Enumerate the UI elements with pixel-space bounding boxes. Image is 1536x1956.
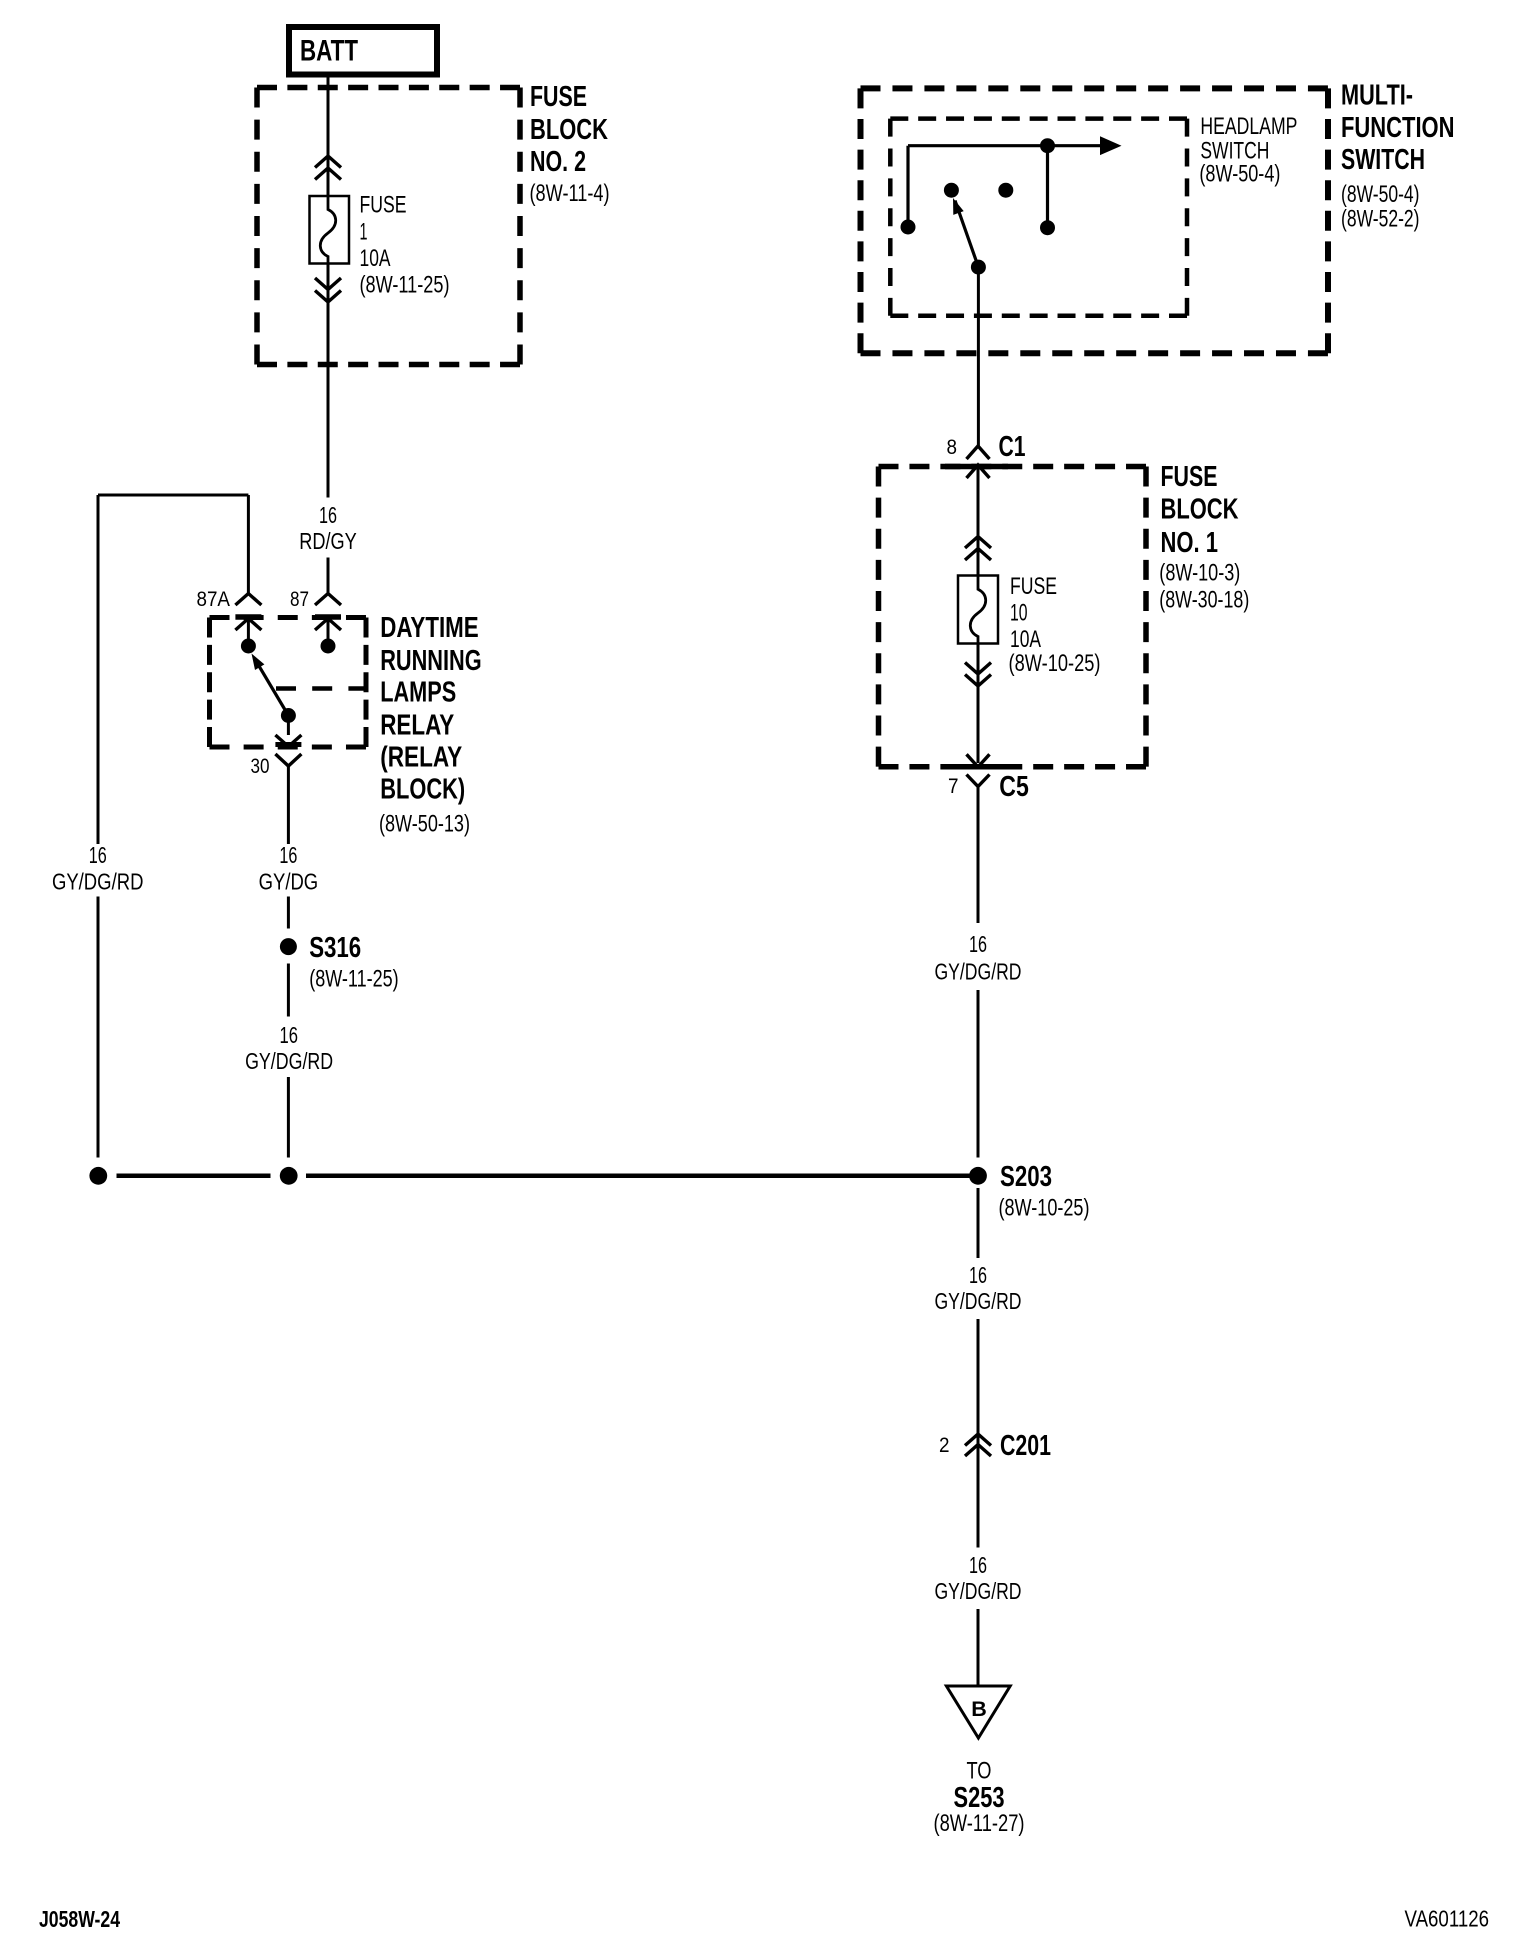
- svg-text:GY/DG/RD: GY/DG/RD: [52, 869, 144, 895]
- svg-text:FUSE: FUSE: [1010, 573, 1057, 600]
- svg-text:16: 16: [280, 1022, 299, 1048]
- svg-text:GY/DG: GY/DG: [259, 869, 319, 895]
- svg-text:(8W-50-13): (8W-50-13): [379, 811, 470, 838]
- svg-text:(RELAY: (RELAY: [380, 742, 462, 774]
- svg-text:C201: C201: [1000, 1430, 1051, 1462]
- svg-text:S203: S203: [1000, 1161, 1052, 1193]
- svg-text:8: 8: [947, 435, 958, 459]
- svg-text:30: 30: [251, 754, 270, 778]
- svg-text:FUSE: FUSE: [1161, 461, 1218, 493]
- svg-text:FUSE: FUSE: [530, 81, 587, 113]
- svg-text:16: 16: [969, 1552, 987, 1578]
- svg-text:1: 1: [360, 219, 368, 246]
- svg-text:BLOCK: BLOCK: [530, 114, 608, 146]
- svg-text:SWITCH: SWITCH: [1341, 144, 1425, 176]
- svg-text:GY/DG/RD: GY/DG/RD: [935, 1288, 1022, 1314]
- svg-text:16: 16: [279, 842, 297, 868]
- svg-text:MULTI-: MULTI-: [1341, 80, 1413, 112]
- svg-text:RELAY: RELAY: [380, 710, 454, 742]
- svg-text:GY/DG/RD: GY/DG/RD: [245, 1048, 333, 1074]
- svg-text:J058W-24: J058W-24: [39, 1906, 120, 1932]
- svg-text:(8W-11-25): (8W-11-25): [309, 966, 399, 993]
- svg-text:NO. 2: NO. 2: [530, 146, 586, 178]
- svg-text:S316: S316: [309, 932, 361, 964]
- svg-text:BLOCK): BLOCK): [380, 774, 465, 806]
- svg-text:C5: C5: [999, 771, 1029, 803]
- svg-text:RD/GY: RD/GY: [299, 528, 357, 554]
- svg-text:LAMPS: LAMPS: [380, 677, 456, 709]
- svg-text:(8W-50-4): (8W-50-4): [1341, 181, 1420, 208]
- svg-text:10A: 10A: [360, 245, 391, 272]
- svg-text:2: 2: [939, 1433, 950, 1457]
- svg-text:TO: TO: [967, 1758, 992, 1785]
- svg-text:B: B: [971, 1697, 987, 1721]
- svg-text:87A: 87A: [197, 587, 231, 611]
- svg-text:(8W-10-3): (8W-10-3): [1159, 560, 1240, 587]
- svg-text:(8W-10-25): (8W-10-25): [999, 1195, 1090, 1222]
- svg-text:RUNNING: RUNNING: [380, 645, 482, 677]
- svg-text:GY/DG/RD: GY/DG/RD: [935, 959, 1022, 985]
- svg-text:(8W-30-18): (8W-30-18): [1159, 587, 1249, 614]
- svg-text:C1: C1: [999, 431, 1026, 463]
- svg-text:10: 10: [1010, 600, 1028, 627]
- svg-text:FUNCTION: FUNCTION: [1341, 112, 1455, 144]
- svg-text:(8W-11-27): (8W-11-27): [934, 1810, 1025, 1837]
- svg-text:GY/DG/RD: GY/DG/RD: [935, 1578, 1022, 1604]
- svg-text:VA601126: VA601126: [1405, 1906, 1490, 1932]
- svg-text:HEADLAMP: HEADLAMP: [1200, 113, 1297, 140]
- svg-text:(8W-10-25): (8W-10-25): [1009, 650, 1101, 677]
- svg-text:FUSE: FUSE: [360, 192, 407, 219]
- svg-text:87: 87: [290, 587, 309, 611]
- svg-text:(8W-11-4): (8W-11-4): [530, 180, 610, 207]
- svg-text:(8W-50-4): (8W-50-4): [1199, 161, 1280, 188]
- svg-text:7: 7: [948, 774, 959, 798]
- svg-text:10A: 10A: [1010, 626, 1041, 653]
- svg-text:BATT: BATT: [300, 35, 358, 68]
- svg-text:DAYTIME: DAYTIME: [380, 612, 479, 644]
- svg-text:(8W-11-25): (8W-11-25): [360, 271, 450, 298]
- svg-text:16: 16: [89, 842, 107, 868]
- svg-text:BLOCK: BLOCK: [1161, 494, 1239, 526]
- svg-text:(8W-52-2): (8W-52-2): [1341, 206, 1420, 233]
- svg-text:16: 16: [969, 931, 987, 957]
- svg-text:16: 16: [969, 1262, 987, 1288]
- svg-text:NO. 1: NO. 1: [1161, 527, 1219, 559]
- svg-text:16: 16: [319, 502, 337, 528]
